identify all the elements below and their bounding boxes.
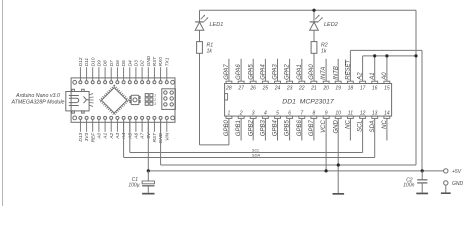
svg-text:A0: A0 xyxy=(97,132,103,139)
wire nano 5V pin down xyxy=(147,119,149,170)
svg-text:9: 9 xyxy=(325,111,328,117)
Arduino Nano top pin labels xyxy=(78,55,170,66)
svg-text:RST: RST xyxy=(152,132,158,143)
USB connector J1 xyxy=(66,89,94,113)
svg-text:28: 28 xyxy=(225,86,232,92)
ground under DD1 pin 10 xyxy=(333,193,345,195)
svg-text:15: 15 xyxy=(384,86,390,92)
wire DD1 GND pin 10 down to ground xyxy=(337,118,339,193)
svg-text:7: 7 xyxy=(300,111,303,117)
svg-text:D7: D7 xyxy=(109,60,115,66)
DD1 pin numbers xyxy=(225,86,390,117)
capacitor C2 100n xyxy=(421,171,423,180)
wire SCL bus xyxy=(130,152,363,154)
svg-text:D2: D2 xyxy=(140,60,146,66)
svg-text:1k: 1k xyxy=(207,48,213,54)
svg-text:D4: D4 xyxy=(127,60,133,66)
svg-text:21: 21 xyxy=(310,86,317,92)
IC DD1 MCP23017 body xyxy=(225,84,392,117)
svg-text:GND: GND xyxy=(158,132,164,143)
svg-text:A5: A5 xyxy=(127,132,133,139)
svg-text:14: 14 xyxy=(384,111,390,117)
svg-text:11: 11 xyxy=(348,111,353,117)
Arduino Nano bottom pin labels xyxy=(78,132,170,144)
wire GND top rail xyxy=(200,9,417,11)
ground under GND terminal xyxy=(441,192,451,194)
wire nano A4 to SDA xyxy=(123,119,125,157)
svg-text:20: 20 xyxy=(322,86,329,92)
svg-text:26: 26 xyxy=(249,86,256,92)
svg-text:3: 3 xyxy=(154,102,156,106)
Arduino Nano bottom pins xyxy=(73,116,175,132)
DD1 top pin stubs xyxy=(229,59,338,81)
capacitor C1 100u xyxy=(147,171,149,181)
svg-text:D3: D3 xyxy=(134,60,140,66)
wire DD1 SCL pin 12 down xyxy=(362,118,364,152)
wire DD1 SDA pin 13 down xyxy=(374,118,376,157)
svg-text:22: 22 xyxy=(298,86,305,92)
svg-text:A1: A1 xyxy=(103,132,109,139)
svg-text:D12: D12 xyxy=(78,57,84,66)
svg-text:100n: 100n xyxy=(403,183,414,189)
svg-text:ATMEGA328P Module: ATMEGA328P Module xyxy=(11,100,65,106)
svg-text:17: 17 xyxy=(360,86,366,92)
svg-text:2: 2 xyxy=(239,111,243,117)
svg-text:D11: D11 xyxy=(84,58,90,67)
wire DD1 VCC pin 9 to +5V rail xyxy=(325,118,327,170)
svg-text:27: 27 xyxy=(237,86,244,92)
reset button SW1 xyxy=(130,95,140,104)
resistor R2 1k xyxy=(311,42,317,54)
wire A2 A1 A0 address line xyxy=(362,56,364,81)
svg-text:3: 3 xyxy=(252,111,255,117)
svg-text:12: 12 xyxy=(360,111,366,117)
terminal GND xyxy=(444,181,448,185)
svg-text:+5V: +5V xyxy=(452,169,462,175)
wire nano A5 to SCL xyxy=(129,119,131,152)
svg-text:A6: A6 xyxy=(134,132,140,139)
wire LED2 anode to GPA0 pin 21 xyxy=(313,53,315,81)
wire SDA bus xyxy=(124,157,375,159)
svg-text:3V3: 3V3 xyxy=(84,132,90,141)
MCU U1 ATmega328 (rotated QFP) xyxy=(100,86,129,115)
svg-text:1: 1 xyxy=(228,111,231,117)
svg-text:A3: A3 xyxy=(115,132,121,139)
DD1 bottom pin names xyxy=(224,120,388,137)
wire GND rail right vertical xyxy=(415,10,417,165)
LED LED2 xyxy=(310,10,323,41)
svg-text:RX0: RX0 xyxy=(158,57,164,67)
svg-text:100µ: 100µ xyxy=(128,183,139,189)
svg-text:TX1: TX1 xyxy=(164,57,170,66)
svg-text:19: 19 xyxy=(335,86,341,92)
svg-text:D13: D13 xyxy=(78,132,84,141)
svg-text:13: 13 xyxy=(372,111,378,117)
svg-text:4: 4 xyxy=(264,111,267,117)
svg-text:A2: A2 xyxy=(109,132,115,139)
wire GND bus horizontal xyxy=(161,164,416,166)
terminal +5V xyxy=(444,169,448,173)
svg-text:D5: D5 xyxy=(121,60,127,66)
6-pin header xyxy=(162,89,176,110)
DD1 pin pads xyxy=(226,81,390,118)
svg-text:A7: A7 xyxy=(140,132,146,139)
ground under C1 xyxy=(142,193,154,195)
module A1 Arduino Nano board outline xyxy=(71,78,175,122)
LED LED1 xyxy=(195,10,208,41)
DD1 top pin names xyxy=(224,58,388,80)
svg-text:D10: D10 xyxy=(90,57,96,66)
svg-text:16: 16 xyxy=(372,86,378,92)
wire LED1 anode to GPB0 pin 1 xyxy=(199,53,201,145)
ICSP pads xyxy=(145,94,153,106)
svg-text:D6: D6 xyxy=(115,60,121,66)
svg-text:GND: GND xyxy=(452,181,464,187)
svg-text:10: 10 xyxy=(335,111,341,117)
svg-text:DD1 MCP23017: DD1 MCP23017 xyxy=(282,99,334,106)
svg-text:VIN: VIN xyxy=(164,132,170,141)
svg-text:25: 25 xyxy=(262,86,269,92)
svg-text:A4: A4 xyxy=(121,132,127,139)
wire +5V rail xyxy=(148,170,443,172)
svg-text:5: 5 xyxy=(276,111,279,117)
svg-text:LED2: LED2 xyxy=(324,22,338,28)
wire nano GND pin down xyxy=(160,119,162,165)
svg-text:24: 24 xyxy=(274,86,281,92)
DD1 pin-1 mark xyxy=(225,94,228,100)
svg-text:6: 6 xyxy=(288,111,291,117)
svg-text:1k: 1k xyxy=(321,48,327,54)
svg-text:5V: 5V xyxy=(146,132,152,139)
svg-text:D8: D8 xyxy=(103,60,109,66)
svg-text:REF: REF xyxy=(90,132,96,143)
svg-text:GND: GND xyxy=(146,55,152,66)
svg-text:23: 23 xyxy=(286,86,293,92)
svg-text:Arduino Nano v3.0: Arduino Nano v3.0 xyxy=(15,93,60,99)
ground under C2 xyxy=(416,193,428,195)
resistor R1 1k xyxy=(197,42,203,54)
wire RESET pin 18 tie high xyxy=(349,50,351,81)
svg-text:LED1: LED1 xyxy=(210,22,224,28)
svg-text:RST: RST xyxy=(152,56,158,67)
svg-text:8: 8 xyxy=(313,111,316,117)
svg-text:D9: D9 xyxy=(97,60,103,66)
svg-text:18: 18 xyxy=(348,86,354,92)
DD1 bottom pin stubs xyxy=(241,118,387,140)
svg-text:SDA: SDA xyxy=(252,153,261,158)
Arduino Nano top pins xyxy=(73,67,175,84)
